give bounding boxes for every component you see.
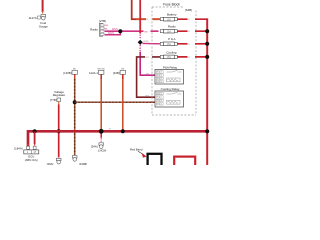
wire radio pink to radio fuse [105,29,159,33]
label Red Band with arrow [130,148,147,158]
svg-text:[27B]: [27B] [99,19,106,23]
fuse Radio 15A [160,25,177,34]
power bus right (red vertical) [206,18,208,165]
svg-text:30: 30 [157,78,159,80]
connector [34A] to LHCM [91,143,107,153]
svg-text:[184A]: [184A] [14,147,22,151]
splice dot radio wires [118,29,122,33]
junction dot bus/cooling [205,55,209,59]
junction dot bus/radio [205,29,209,33]
wire battery feed vertical (turns right to Battery fuse) [132,0,161,21]
fuse block dashed border [152,7,196,115]
svg-text:1: 1 [161,97,162,99]
svg-text:86: 86 [157,93,159,95]
connector [184A] ECU [14,147,38,162]
junction dot bus/ECU2 [33,129,37,133]
wire [133B] down (red/black) [74,74,76,155]
connector [117A] Fuel Gauge [29,14,49,28]
svg-text:5: 5 [161,104,162,106]
svg-text:86: 86 [157,72,159,74]
svg-text:LHCM: LHCM [98,149,107,153]
svg-text:R/GN: R/GN [112,29,118,31]
svg-text:85: 85 [157,75,159,77]
svg-text:15A: 15A [167,30,172,33]
svg-text:87: 87 [157,81,159,83]
svg-text:R/PK: R/PK [144,41,150,43]
svg-text:[133B]: [133B] [63,71,71,75]
wire splice down to P&A relay (pink then magenta) [140,45,155,76]
svg-text:Battery: Battery [167,13,177,17]
wire [122A-1] down (orange red) [100,74,102,131]
wire cooling fuse to cooling relay (maroon) [137,56,161,98]
main fuse (red box, cut off) [174,157,195,168]
wire ECU branch 2 [34,131,36,144]
svg-text:3: 3 [161,78,162,80]
label Voltage Regulator [50,90,65,102]
svg-text:[64B]: [64B] [185,8,192,12]
relay Cooling Relay [155,87,184,107]
svg-text:5: 5 [161,81,162,83]
main power bus bottom (thick red) [28,131,207,148]
svg-text:R/Y: R/Y [146,95,150,97]
svg-text:122A-1: 122A-1 [89,71,98,75]
connector at bottom of [133B] wire [72,156,87,166]
wire splice to P&A fuse [142,41,160,44]
svg-text:(ABS Only): (ABS Only) [25,158,38,162]
svg-text:Cooling: Cooling [166,50,177,54]
svg-text:R/GN: R/GN [108,33,114,35]
ECU connector pins [27,146,37,149]
svg-text:3: 3 [161,100,162,102]
wire radio pink lower, bends up at x=120 [105,31,121,35]
wire voltage regulator down [58,102,60,158]
svg-text:[134B]: [134B] [79,162,87,165]
connector [34B] [113,68,126,75]
svg-text:GN: GN [105,25,109,27]
connector [122A-1] [89,68,105,75]
svg-text:Radio: Radio [90,27,98,31]
wire main red vertical to splice [139,0,141,40]
splice S1 (diamond) [138,40,143,45]
relay P&A Relay [155,65,184,84]
wire ECU branch 1 lower part [27,144,29,146]
svg-text:15A: 15A [167,43,172,46]
wire [34B] down (orange red) [122,74,124,131]
svg-text:P&A Relay: P&A Relay [163,65,178,69]
svg-text:Regulator: Regulator [53,93,66,97]
wire fuel gauge feed (red vertical top-left) [42,0,44,14]
wire P&A fuse to bus [177,43,207,45]
svg-text:BK/GN: BK/GN [98,68,105,70]
svg-text:87: 87 [157,104,159,106]
fuse P&A 15A [160,37,177,46]
junction dot bus/P&A [205,42,209,46]
svg-text:Red Band: Red Band [130,148,143,152]
svg-text:15A: 15A [167,18,172,21]
svg-text:30: 30 [157,100,159,102]
junction dot regulator/bus [57,129,61,133]
svg-text:[34B]: [34B] [113,71,120,75]
junction dot bus/right bus [205,129,209,133]
connector [133B] [63,68,77,75]
svg-text:2: 2 [161,72,162,74]
svg-text:15A: 15A [167,56,172,59]
svg-text:[77B]: [77B] [50,98,57,102]
svg-text:2: 2 [161,93,162,95]
svg-text:Cooling Relay: Cooling Relay [161,87,180,91]
junction dot regulator/bus big [99,129,104,134]
wire below bus to LHCM connector [100,131,102,142]
svg-text:1: 1 [161,75,162,77]
junction dot 34B/bus [121,129,125,133]
svg-text:Fuse Block: Fuse Block [163,2,180,6]
wire battery fuse to bus [177,18,207,20]
junction dot regulator splice [73,100,77,104]
svg-text:R/Y: R/Y [146,57,150,59]
svg-text:[46A]: [46A] [47,162,54,165]
svg-text:85: 85 [157,97,159,99]
svg-text:P & A: P & A [168,37,175,41]
svg-text:Radio: Radio [168,25,176,29]
battery (black box, cut off) [148,154,162,167]
connector at bottom of regulator wire [47,158,61,166]
svg-text:1117A: 1117A [29,16,37,20]
svg-text:GN: GN [144,31,148,33]
svg-text:[34A]: [34A] [91,144,98,148]
wire splice to cooling relay (dark) [75,101,155,103]
wire radio fuse to bus [177,30,207,32]
svg-text:Gauge: Gauge [39,24,48,28]
wire cooling fuse to bus [177,56,207,58]
fuse Cooling 15A [160,50,177,59]
connector [27B] Radio [90,19,108,36]
fuse Battery 15A [160,13,177,22]
